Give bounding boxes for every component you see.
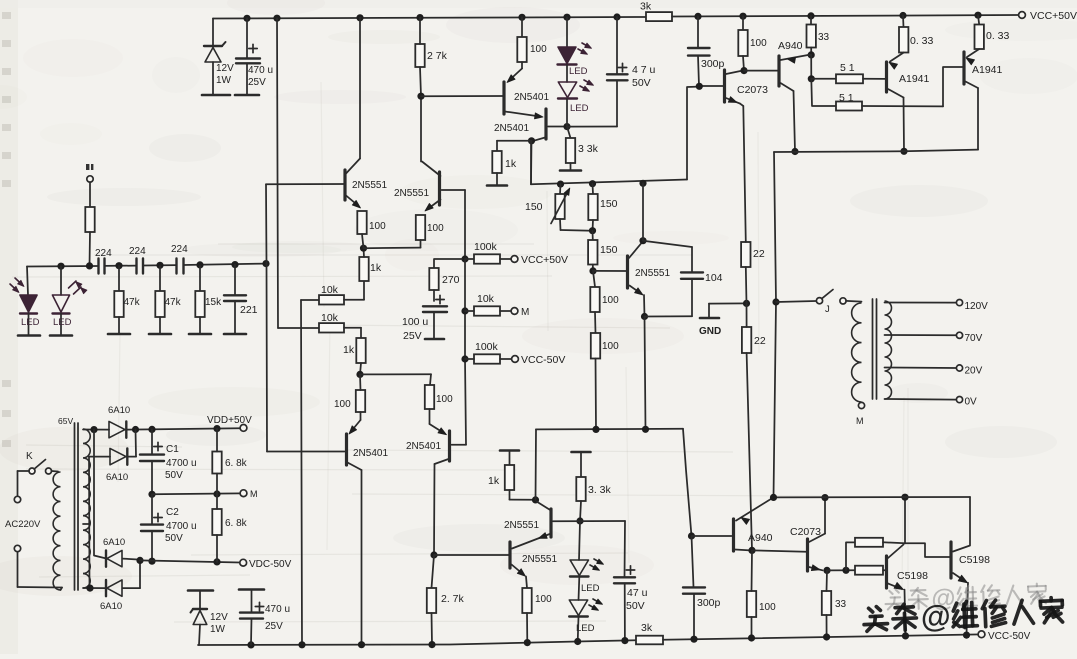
svg-text:224: 224 <box>171 244 188 255</box>
svg-text:6A10: 6A10 <box>100 601 122 612</box>
svg-text:100: 100 <box>759 602 776 613</box>
svg-text:65V: 65V <box>58 416 73 426</box>
svg-text:VCC-50V: VCC-50V <box>521 354 565 366</box>
svg-text:LED: LED <box>570 103 589 114</box>
svg-text:2. 7k: 2. 7k <box>441 593 465 605</box>
svg-text:VCC+50V: VCC+50V <box>521 254 568 266</box>
svg-text:150: 150 <box>600 244 618 256</box>
svg-text:6A10: 6A10 <box>103 537 125 548</box>
svg-text:A940: A940 <box>748 532 773 544</box>
svg-text:2N5401: 2N5401 <box>514 92 549 103</box>
svg-text:10k: 10k <box>477 293 495 305</box>
svg-text:6A10: 6A10 <box>108 405 130 416</box>
svg-text:A940: A940 <box>778 40 803 52</box>
svg-text:3k: 3k <box>641 622 653 634</box>
svg-text:5 1: 5 1 <box>839 92 854 104</box>
svg-text:1k: 1k <box>370 262 382 274</box>
svg-text:M: M <box>856 416 864 426</box>
svg-text:47 u: 47 u <box>627 587 648 599</box>
svg-text:4700 u: 4700 u <box>166 521 197 532</box>
svg-text:0. 33: 0. 33 <box>910 35 934 47</box>
svg-text:100 u: 100 u <box>402 316 428 328</box>
svg-text:@: @ <box>920 598 951 634</box>
svg-text:50V: 50V <box>165 470 183 481</box>
svg-text:2N5551: 2N5551 <box>394 188 429 199</box>
svg-text:4 7 u: 4 7 u <box>632 64 656 76</box>
svg-text:C5198: C5198 <box>959 554 990 566</box>
svg-text:100: 100 <box>427 223 444 234</box>
svg-text:33: 33 <box>818 32 830 43</box>
svg-text:25V: 25V <box>265 621 283 632</box>
svg-text:120V: 120V <box>965 301 989 312</box>
svg-text:100: 100 <box>535 594 552 605</box>
svg-text:2N5551: 2N5551 <box>522 554 557 565</box>
svg-text:VCC-50V: VCC-50V <box>988 631 1031 642</box>
svg-text:100k: 100k <box>474 241 498 253</box>
svg-text:50V: 50V <box>626 600 645 612</box>
svg-text:100: 100 <box>602 341 619 352</box>
svg-text:A1941: A1941 <box>972 64 1003 76</box>
svg-text:LED: LED <box>581 583 600 594</box>
svg-text:1W: 1W <box>216 75 232 86</box>
svg-text:M: M <box>521 307 529 318</box>
svg-text:25V: 25V <box>403 330 422 342</box>
svg-text:12V: 12V <box>210 612 228 623</box>
svg-text:10k: 10k <box>321 312 339 324</box>
svg-text:50V: 50V <box>165 533 183 544</box>
svg-text:1k: 1k <box>343 344 355 356</box>
svg-text:1k: 1k <box>488 475 500 487</box>
svg-text:AC220V: AC220V <box>5 519 41 530</box>
svg-text:10k: 10k <box>321 284 339 296</box>
svg-text:150: 150 <box>600 198 618 210</box>
svg-text:2N5551: 2N5551 <box>504 520 539 531</box>
svg-text:100k: 100k <box>475 341 499 353</box>
svg-text:4700 u: 4700 u <box>166 458 197 469</box>
svg-text:100: 100 <box>334 399 351 410</box>
svg-text:100: 100 <box>369 221 386 232</box>
svg-text:22: 22 <box>753 248 765 260</box>
svg-text:100: 100 <box>750 38 767 49</box>
svg-text:LED: LED <box>21 317 40 328</box>
svg-text:300p: 300p <box>697 597 721 609</box>
svg-text:VDC-50V: VDC-50V <box>249 559 292 570</box>
svg-text:47k: 47k <box>124 297 141 308</box>
svg-text:224: 224 <box>129 246 146 257</box>
svg-text:270: 270 <box>442 274 460 286</box>
svg-text:25V: 25V <box>248 77 266 88</box>
svg-text:C2073: C2073 <box>790 526 821 538</box>
svg-text:3 3k: 3 3k <box>578 143 599 155</box>
svg-text:1k: 1k <box>505 158 517 170</box>
svg-text:224: 224 <box>95 248 112 259</box>
svg-text:300p: 300p <box>701 58 725 70</box>
svg-text:LED: LED <box>53 317 72 328</box>
svg-text:2N5401: 2N5401 <box>406 441 441 452</box>
svg-text:3. 3k: 3. 3k <box>588 484 612 496</box>
svg-text:22: 22 <box>754 335 766 347</box>
svg-text:470 u: 470 u <box>265 604 290 615</box>
svg-text:0. 33: 0. 33 <box>986 30 1010 42</box>
svg-text:50V: 50V <box>632 77 651 89</box>
svg-text:2N5401: 2N5401 <box>353 448 388 459</box>
svg-text:3k: 3k <box>640 1 652 13</box>
svg-text:M: M <box>250 489 258 499</box>
svg-text:A1941: A1941 <box>899 73 930 85</box>
svg-text:100: 100 <box>436 394 453 405</box>
svg-text:GND: GND <box>699 326 721 337</box>
svg-text:33: 33 <box>835 599 847 610</box>
svg-text:5 1: 5 1 <box>840 62 855 74</box>
svg-text:20V: 20V <box>965 366 983 377</box>
svg-text:6. 8k: 6. 8k <box>225 518 248 529</box>
svg-text:6A10: 6A10 <box>106 472 128 483</box>
svg-text:VCC+50V: VCC+50V <box>1030 10 1077 22</box>
svg-text:70V: 70V <box>965 333 983 344</box>
svg-text:100: 100 <box>602 295 619 306</box>
svg-text:104: 104 <box>705 272 723 284</box>
svg-text:150: 150 <box>525 201 543 213</box>
svg-text:47k: 47k <box>165 297 182 308</box>
svg-text:C2073: C2073 <box>737 84 768 96</box>
svg-text:15k: 15k <box>205 297 222 308</box>
svg-text:100: 100 <box>530 44 547 55</box>
svg-text:C1: C1 <box>166 444 179 455</box>
svg-text:LED: LED <box>569 66 588 77</box>
svg-text:0V: 0V <box>965 397 978 408</box>
svg-text:12V: 12V <box>216 63 234 74</box>
svg-text:2N5401: 2N5401 <box>494 123 529 134</box>
svg-text:470 u: 470 u <box>248 65 273 76</box>
svg-text:VDD+50V: VDD+50V <box>207 415 252 426</box>
svg-text:J: J <box>825 304 830 315</box>
svg-text:2N5551: 2N5551 <box>635 268 670 279</box>
svg-text:C5198: C5198 <box>897 570 928 582</box>
svg-text:2 7k: 2 7k <box>427 50 448 62</box>
svg-text:221: 221 <box>240 304 258 316</box>
svg-text:K: K <box>26 451 33 462</box>
svg-text:1W: 1W <box>210 624 226 635</box>
svg-text:C2: C2 <box>166 507 179 518</box>
svg-text:6. 8k: 6. 8k <box>225 458 248 469</box>
svg-text:2N5551: 2N5551 <box>352 180 387 191</box>
